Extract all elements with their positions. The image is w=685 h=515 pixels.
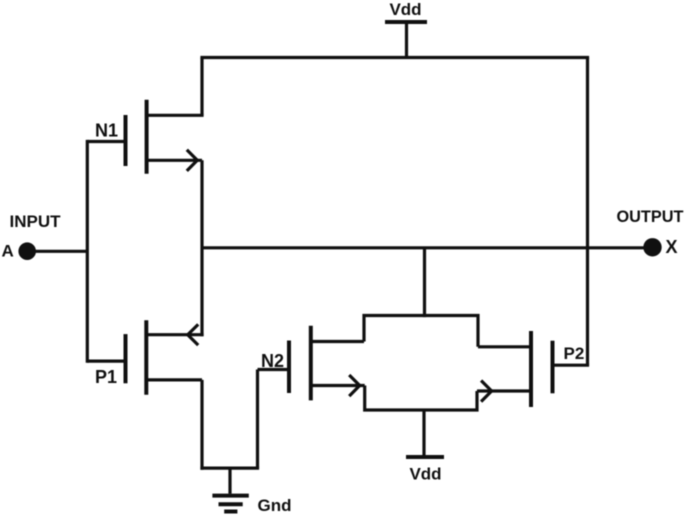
transistor N1 [126,100,204,174]
input dot A [18,242,36,260]
wire ground rail horizontal [200,467,259,470]
svg-text:Gnd: Gnd [258,496,292,515]
svg-text:Vdd: Vdd [389,0,421,19]
svg-text:A: A [2,242,14,261]
svg-text:X: X [666,237,678,257]
wire N2 gate vertical [256,370,259,469]
wire P1 gate lead [87,360,125,363]
svg-text:N1: N1 [95,121,118,141]
power symbol Vdd top [385,22,427,58]
wire P1 source to ground rail [200,380,203,470]
ground symbol [212,468,248,511]
svg-text:P2: P2 [564,344,585,363]
power symbol Vdd bottom [406,410,444,457]
wire coupling loop bottom [365,386,477,411]
wire input gate vertical [86,140,89,363]
transistor N2 [289,326,365,401]
wire output stem to loop [423,248,426,317]
svg-text:OUTPUT: OUTPUT [617,208,684,226]
wire N1 source down to P1 drain (through output node) [200,160,203,336]
wire N1 gate lead [87,140,125,143]
wire output line [202,246,649,249]
wire N2 gate lead [258,368,290,371]
transistor P1 [126,320,204,395]
wire top Vdd rail [200,56,589,59]
wire N1 drain to rail [200,58,203,116]
wire input A [27,250,87,253]
svg-text:INPUT: INPUT [10,212,62,231]
svg-text:P1: P1 [95,367,117,387]
transistor P2 [477,331,589,407]
svg-text:Vdd: Vdd [409,465,441,484]
svg-text:N2: N2 [261,351,284,371]
wire coupling loop top [364,316,478,347]
wire right vertical (rail to P2 gate) [586,58,589,366]
output dot X [643,238,661,256]
